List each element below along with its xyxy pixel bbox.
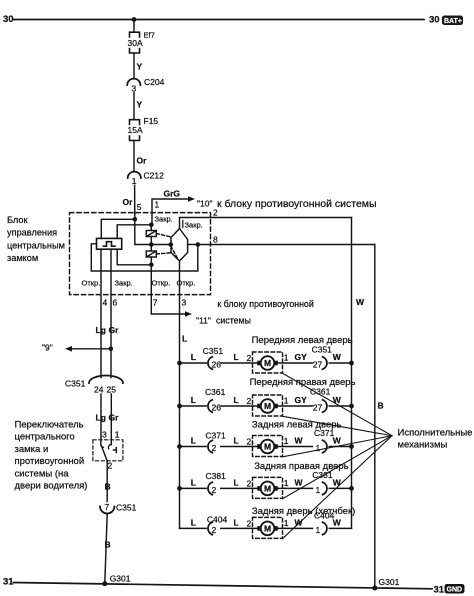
wire W motor to connector C404 bbox=[278, 527, 313, 529]
wire L connector to motor pin 2 bbox=[221, 362, 257, 364]
node L bus row2 bbox=[177, 404, 182, 409]
label к блоку противоугонной "11" системы bbox=[196, 299, 314, 326]
svg-text:GrG: GrG bbox=[164, 189, 181, 199]
svg-text:L: L bbox=[191, 436, 196, 446]
svg-text:замка и: замка и bbox=[15, 444, 49, 455]
node F pin8 junction bbox=[196, 242, 201, 247]
svg-text:C381: C381 bbox=[206, 471, 227, 481]
connector C212 pin 1 bbox=[128, 172, 141, 178]
wire from bus 30 to fuse Ef7 bbox=[133, 20, 135, 33]
BAT+ terminal tag bbox=[442, 16, 463, 26]
label Исполнительные механизмы bbox=[398, 428, 473, 451]
wire L connector to motor pin 2 bbox=[221, 405, 257, 407]
svg-text:M: M bbox=[264, 401, 271, 411]
pin 7 wire with arrow to 11 bbox=[151, 265, 192, 317]
driver door switch text bbox=[15, 420, 88, 492]
svg-text:противоугонной: противоугонной bbox=[15, 456, 85, 467]
svg-text:Gr: Gr bbox=[109, 413, 120, 423]
wire B to ground G301 bbox=[105, 514, 107, 584]
wire Y C204 to F15 bbox=[133, 93, 135, 120]
svg-text:2: 2 bbox=[247, 518, 252, 528]
svg-text:Lg: Lg bbox=[96, 413, 106, 423]
pin 6 wire down bbox=[110, 249, 112, 377]
connector C361 pin 26 left bbox=[208, 400, 212, 412]
svg-text:27: 27 bbox=[313, 360, 323, 370]
wire W to W bus bbox=[329, 405, 351, 407]
lock actuator motor M1 bbox=[253, 352, 283, 373]
svg-text:2: 2 bbox=[247, 437, 252, 447]
GND terminal tag bbox=[445, 584, 465, 594]
wire L connector to motor pin 2 bbox=[221, 446, 257, 448]
node L bus row4 bbox=[177, 486, 182, 491]
svg-text:B: B bbox=[105, 540, 111, 550]
svg-text:центрального: центрального bbox=[15, 432, 75, 443]
svg-text:Y: Y bbox=[137, 62, 143, 72]
svg-text:8: 8 bbox=[213, 235, 218, 245]
svg-text:C204: C204 bbox=[144, 77, 165, 87]
svg-text:Закр.: Закр. bbox=[185, 221, 203, 230]
node W bus row4 bbox=[349, 486, 354, 491]
svg-text:к блоку противоугонной системы: к блоку противоугонной системы bbox=[217, 198, 377, 210]
wire Lg below C351 bbox=[100, 394, 102, 440]
svg-text:3: 3 bbox=[102, 430, 107, 440]
wire A down to node C bbox=[135, 219, 152, 244]
wire W to W bus bbox=[329, 487, 351, 489]
svg-text:C371: C371 bbox=[314, 428, 335, 438]
svg-text:Откр.: Откр. bbox=[152, 279, 171, 288]
svg-text:1: 1 bbox=[284, 353, 289, 363]
svg-text:1: 1 bbox=[284, 518, 289, 528]
svg-text:W: W bbox=[333, 517, 342, 527]
svg-text:15A: 15A bbox=[128, 125, 143, 135]
wire Or F15 to C212 bbox=[133, 141, 135, 172]
connector C404 pin 2 left bbox=[208, 522, 212, 534]
wire L connector to motor pin 2 bbox=[221, 527, 257, 529]
svg-text:Передняя левая дверь: Передняя левая дверь bbox=[252, 335, 353, 346]
svg-text:L: L bbox=[234, 517, 239, 527]
svg-text:1: 1 bbox=[284, 478, 289, 488]
svg-text:M: M bbox=[264, 358, 271, 368]
svg-text:L: L bbox=[234, 395, 239, 405]
svg-text:C404: C404 bbox=[314, 511, 335, 521]
wire GrG pin 1 with arrow to 10 bbox=[152, 189, 195, 225]
svg-text:3: 3 bbox=[182, 298, 187, 308]
svg-text:C381: C381 bbox=[312, 470, 333, 480]
switch pivot node bbox=[169, 242, 174, 247]
svg-text:C351: C351 bbox=[312, 345, 333, 355]
svg-text:L: L bbox=[191, 477, 196, 487]
svg-text:2: 2 bbox=[212, 443, 217, 453]
svg-text:Ef7: Ef7 bbox=[144, 31, 155, 40]
svg-text:27: 27 bbox=[313, 403, 323, 413]
svg-text:механизмы: механизмы bbox=[398, 440, 448, 451]
svg-text:BAT+: BAT+ bbox=[444, 18, 462, 25]
svg-text:C351: C351 bbox=[65, 379, 86, 389]
svg-text:системы (на: системы (на bbox=[15, 468, 70, 479]
bus 31 bottom rail bbox=[14, 583, 433, 589]
svg-text:W: W bbox=[295, 518, 304, 528]
label |Закр. bbox=[183, 221, 203, 230]
node W bus row1 bbox=[349, 361, 354, 366]
svg-text:"11": "11" bbox=[196, 316, 211, 326]
svg-text:Or: Or bbox=[123, 197, 134, 207]
svg-text:2: 2 bbox=[108, 461, 113, 471]
fuse Ef7 30A bbox=[130, 32, 140, 53]
svg-text:Gr: Gr bbox=[109, 325, 120, 335]
svg-text:30: 30 bbox=[429, 15, 440, 26]
svg-text:Закр.: Закр. bbox=[115, 279, 133, 288]
connector C381 pin 1 right bbox=[323, 482, 327, 494]
connector C204 pin 3 bbox=[127, 79, 140, 85]
wire Y fuse to C204 bbox=[133, 53, 135, 79]
svg-text:B: B bbox=[378, 401, 384, 411]
connector C371 pin 2 left bbox=[208, 440, 212, 452]
wire L to connector C381 bbox=[180, 487, 207, 489]
B bus vertical bbox=[374, 245, 376, 589]
wire W motor to connector C371 bbox=[278, 446, 313, 448]
changeover switch S1 bbox=[156, 229, 187, 262]
svg-text:M: M bbox=[264, 524, 271, 534]
svg-text:C361: C361 bbox=[205, 387, 226, 397]
node C coil mid junction bbox=[149, 242, 154, 247]
svg-text:L: L bbox=[234, 436, 239, 446]
node L bus row3 bbox=[177, 444, 182, 449]
relay coil K1 bbox=[146, 225, 156, 245]
wire GY motor to connector C361 bbox=[278, 405, 313, 407]
wire B to timer top-right bbox=[117, 225, 151, 239]
connector C371 pin 1 right bbox=[323, 440, 327, 452]
svg-text:L: L bbox=[191, 395, 196, 405]
wire W to W bus bbox=[329, 362, 351, 364]
svg-text:W: W bbox=[333, 436, 342, 446]
svg-text:C371: C371 bbox=[205, 430, 226, 440]
ground node G301 left bbox=[102, 581, 107, 586]
control unit text: Блок управления центральным замком bbox=[7, 215, 65, 263]
svg-text:C212: C212 bbox=[144, 171, 165, 181]
svg-text:M: M bbox=[264, 442, 271, 452]
svg-text:30A: 30A bbox=[128, 38, 143, 48]
svg-text:1: 1 bbox=[316, 485, 321, 495]
svg-text:31: 31 bbox=[3, 577, 14, 588]
lock actuator motor M5 bbox=[253, 517, 283, 538]
svg-text:Откр.: Откр. bbox=[82, 279, 101, 288]
central lock control unit U1 dashed box bbox=[70, 213, 211, 295]
svg-text:Or: Or bbox=[137, 156, 148, 166]
node A pin5 junction bbox=[133, 217, 138, 222]
connector C404 pin 1 right bbox=[323, 522, 327, 534]
node B coil top junction bbox=[149, 223, 154, 228]
actuators fan lines bbox=[283, 373, 393, 538]
connector C351 pin 7 bbox=[100, 502, 137, 514]
bus 30 top rail bbox=[13, 19, 424, 21]
node E coil bottom junction bbox=[149, 263, 154, 268]
svg-text:2: 2 bbox=[247, 396, 252, 406]
wire L to connector C371 bbox=[180, 446, 207, 448]
connector C381 pin 2 left bbox=[208, 482, 212, 494]
svg-text:W: W bbox=[333, 477, 342, 487]
wire timer left bracket to node F rail bbox=[91, 244, 198, 271]
wire B to C351 pin 7 bbox=[106, 461, 108, 502]
svg-text:C404: C404 bbox=[207, 514, 228, 524]
svg-text:W: W bbox=[333, 352, 342, 362]
svg-text:C351: C351 bbox=[203, 346, 224, 356]
svg-text:G301: G301 bbox=[379, 577, 400, 587]
labels Откр Закр Откр Откр inside box bottom bbox=[82, 279, 196, 288]
svg-text:M: M bbox=[264, 484, 271, 494]
svg-text:GND: GND bbox=[447, 587, 463, 594]
svg-text:Y: Y bbox=[137, 100, 143, 110]
svg-text:L: L bbox=[182, 334, 187, 344]
svg-text:GY: GY bbox=[295, 352, 308, 362]
ground node G301 right bbox=[372, 586, 377, 591]
lock actuator motor M3 bbox=[253, 436, 283, 457]
svg-text:L: L bbox=[234, 477, 239, 487]
svg-text:6: 6 bbox=[113, 298, 118, 308]
svg-text:2: 2 bbox=[247, 353, 252, 363]
driver door switch S2 dashed box bbox=[93, 440, 123, 461]
svg-text:L: L bbox=[191, 517, 196, 527]
connector C351 pin 26 left bbox=[208, 357, 212, 369]
svg-text:1: 1 bbox=[284, 396, 289, 406]
svg-text:системы: системы bbox=[216, 316, 251, 326]
wire L to connector C404 bbox=[180, 527, 207, 529]
pulse timer U2 bbox=[97, 238, 122, 249]
svg-text:7: 7 bbox=[105, 502, 110, 512]
svg-text:C351: C351 bbox=[116, 503, 137, 513]
connector C351 pins 24 25 bbox=[65, 376, 123, 395]
svg-text:30: 30 bbox=[3, 14, 14, 25]
wire W to W bus bbox=[329, 527, 351, 529]
switch S2 contacts and blade bbox=[101, 440, 117, 461]
svg-text:31: 31 bbox=[434, 585, 445, 596]
wire A to timer top-left bbox=[101, 219, 135, 238]
wire timer bottom-right to node E rail bbox=[117, 249, 151, 265]
svg-text:W: W bbox=[356, 297, 365, 307]
svg-text:C361: C361 bbox=[310, 386, 331, 396]
svg-text:Lg: Lg bbox=[96, 325, 106, 335]
svg-text:L: L bbox=[191, 352, 196, 362]
svg-text:B: B bbox=[105, 482, 111, 492]
svg-text:Переключатель: Переключатель bbox=[15, 420, 84, 431]
svg-text:1: 1 bbox=[316, 525, 321, 535]
svg-text:7: 7 bbox=[153, 298, 158, 308]
svg-text:26: 26 bbox=[212, 403, 222, 413]
svg-text:W: W bbox=[333, 395, 342, 405]
svg-text:управления: управления bbox=[7, 228, 57, 238]
svg-text:замком: замком bbox=[7, 253, 38, 263]
wire L connector to motor pin 2 bbox=[221, 487, 257, 489]
connector C351 pin 27 right bbox=[323, 357, 327, 369]
svg-text:1: 1 bbox=[155, 200, 160, 210]
svg-text:Исполнительные: Исполнительные bbox=[398, 428, 473, 439]
svg-text:двери водителя): двери водителя) bbox=[15, 481, 88, 492]
node L bus row1 bbox=[177, 361, 182, 366]
svg-text:G301: G301 bbox=[110, 574, 131, 584]
svg-text:L: L bbox=[234, 352, 239, 362]
svg-text:"10": "10" bbox=[197, 199, 213, 209]
svg-text:W: W bbox=[295, 478, 304, 488]
node W bus row2 bbox=[349, 404, 354, 409]
connector C361 pin 27 right bbox=[323, 400, 327, 412]
arrow to "9" bbox=[42, 343, 113, 353]
svg-text:1: 1 bbox=[132, 176, 137, 186]
svg-text:центральным: центральным bbox=[7, 240, 65, 250]
svg-text:2: 2 bbox=[213, 208, 218, 218]
svg-text:5: 5 bbox=[137, 202, 142, 212]
wire GY motor to connector C351 bbox=[278, 362, 313, 364]
relay coil K2 bbox=[146, 245, 156, 265]
svg-text:GY: GY bbox=[295, 395, 308, 405]
lock actuator motor M4 bbox=[253, 477, 283, 498]
svg-text:F15: F15 bbox=[144, 116, 159, 126]
svg-text:Задняя правая дверь: Задняя правая дверь bbox=[254, 461, 349, 472]
svg-text:25: 25 bbox=[107, 385, 117, 395]
wire switch to node F bbox=[188, 244, 198, 246]
wire W to W bus bbox=[329, 446, 351, 448]
node: battery feed junction bbox=[132, 17, 137, 22]
svg-text:2: 2 bbox=[247, 478, 252, 488]
svg-text:Задняя дверь (хетчбек): Задняя дверь (хетчбек) bbox=[252, 506, 355, 517]
svg-text:2: 2 bbox=[212, 485, 217, 495]
pin 4 wire down bbox=[100, 249, 102, 377]
wire L to connector C351 bbox=[180, 362, 207, 364]
svg-text:Передняя правая дверь: Передняя правая дверь bbox=[250, 377, 356, 388]
pin 2 wire to W bus bbox=[180, 218, 352, 229]
svg-text:2: 2 bbox=[212, 525, 217, 535]
fuse F15 15A bbox=[130, 120, 140, 141]
svg-text:W: W bbox=[295, 436, 304, 446]
wire C to switch pivot bbox=[151, 244, 171, 246]
svg-text:1: 1 bbox=[284, 436, 289, 446]
lock actuator motor M2 bbox=[253, 395, 283, 416]
svg-text:26: 26 bbox=[212, 360, 222, 370]
svg-text:4: 4 bbox=[103, 298, 108, 308]
wire Gr below C351 bbox=[110, 394, 112, 440]
svg-text:"9": "9" bbox=[42, 343, 53, 353]
svg-text:24: 24 bbox=[94, 385, 104, 395]
svg-text:Закр.: Закр. bbox=[155, 215, 173, 224]
wire W motor to connector C381 bbox=[278, 487, 313, 489]
svg-text:к блоку противоугонной: к блоку противоугонной bbox=[217, 299, 313, 309]
wire Or C212 to control unit pin 5 bbox=[134, 186, 136, 220]
pin 3 wire L bus bbox=[179, 261, 181, 528]
svg-text:1: 1 bbox=[316, 443, 321, 453]
W bus vertical bbox=[351, 218, 353, 529]
wire L to connector C361 bbox=[180, 405, 207, 407]
pin 8 wire to B bus bbox=[198, 244, 375, 246]
node W bus row3 bbox=[349, 444, 354, 449]
svg-text:Блок: Блок bbox=[7, 215, 28, 225]
svg-text:1: 1 bbox=[115, 430, 120, 440]
